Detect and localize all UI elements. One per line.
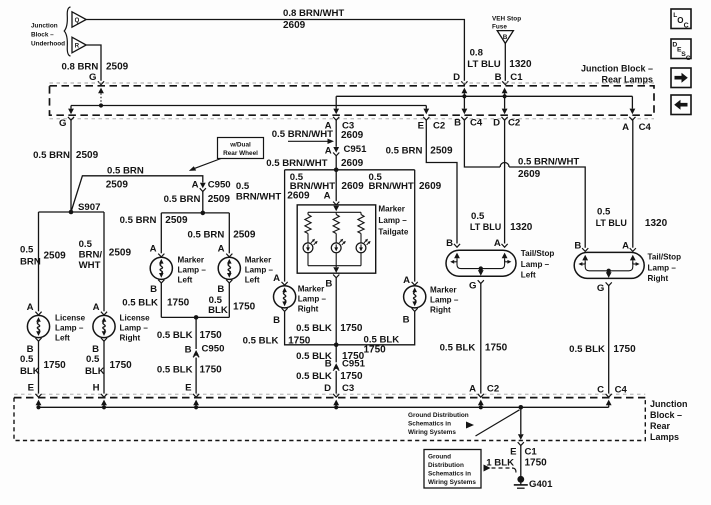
svg-text:1750: 1750 xyxy=(44,360,67,371)
svg-text:Right: Right xyxy=(648,274,669,283)
svg-text:Distribution: Distribution xyxy=(428,462,464,469)
label tail/stop lamp right xyxy=(648,253,682,284)
pin B marker right2 xyxy=(403,308,418,325)
svg-text:VEH Stop: VEH Stop xyxy=(492,15,521,22)
svg-text:0.5 BRN: 0.5 BRN xyxy=(33,150,70,161)
svg-text:C2: C2 xyxy=(433,121,445,132)
wire 0.5 BLK 1750 (C951 to D C3) xyxy=(296,371,363,394)
svg-text:Ground Distribution: Ground Distribution xyxy=(408,412,469,419)
wire 0.5 LT BLU 1320 (D C2 to tail/stop left A) xyxy=(470,120,533,243)
svg-text:Junction Block –: Junction Block – xyxy=(581,64,653,74)
svg-text:Wiring Systems: Wiring Systems xyxy=(428,479,476,486)
lamp marker right2 xyxy=(404,286,426,308)
svg-text:Block –: Block – xyxy=(650,410,682,420)
svg-text:0.5 BLK: 0.5 BLK xyxy=(157,364,193,375)
wire 0.5 BLK 1750 (tail/stop left G) xyxy=(440,284,508,394)
wire 0.5 BRN 2509 license left xyxy=(20,212,66,311)
svg-text:2609: 2609 xyxy=(341,158,364,169)
node: bus junction dots xyxy=(36,405,483,409)
svg-text:1320: 1320 xyxy=(509,59,532,70)
svg-text:G: G xyxy=(469,281,476,292)
svg-text:0.5 BRN: 0.5 BRN xyxy=(107,166,144,177)
svg-text:Marker: Marker xyxy=(430,286,457,295)
wire 0.5 BRN 2509 marker left1 xyxy=(120,213,188,253)
svg-text:A: A xyxy=(192,180,199,191)
svg-text:0.5: 0.5 xyxy=(471,211,485,222)
svg-text:0.5 BRN/WHT: 0.5 BRN/WHT xyxy=(518,157,579,168)
LED tailgate 3 xyxy=(356,239,371,266)
node: junction dot G bus xyxy=(99,103,103,107)
wire: bus2 inside top block xyxy=(336,95,632,97)
svg-text:Lamp –: Lamp – xyxy=(378,216,407,225)
wire 0.5 BLK 1750 license right xyxy=(85,341,132,393)
svg-text:Lamp –: Lamp – xyxy=(521,260,550,269)
svg-text:B: B xyxy=(503,34,508,41)
svg-text:0.5 BRN: 0.5 BRN xyxy=(120,215,157,226)
svg-text:C: C xyxy=(684,23,689,30)
svg-text:A: A xyxy=(325,146,332,157)
svg-text:Lamps: Lamps xyxy=(650,432,679,442)
wire 0.5 BRN/WHT 2609 (B C4 to tail/stop right B) xyxy=(464,120,585,248)
pin B tail/stop right xyxy=(574,241,588,252)
node B C4 label xyxy=(454,118,483,129)
svg-text:Tail/Stop: Tail/Stop xyxy=(521,249,555,258)
svg-text:Junction: Junction xyxy=(31,23,58,30)
ground G401 xyxy=(514,476,553,490)
svg-text:Left: Left xyxy=(178,276,193,285)
svg-text:Wiring Systems: Wiring Systems xyxy=(408,429,456,436)
connector A C950 xyxy=(192,180,231,192)
svg-text:B: B xyxy=(403,315,410,326)
svg-text:A: A xyxy=(622,122,629,133)
pin A tail/stop right xyxy=(622,241,636,252)
svg-text:C951: C951 xyxy=(344,144,368,155)
button left arrow xyxy=(671,95,691,115)
node: junction dot B C1 bus2 xyxy=(503,94,507,98)
label marker lamp right1 xyxy=(298,285,327,314)
svg-text:B: B xyxy=(185,345,192,356)
wire 0.5 BRN 2509 marker left2 xyxy=(188,213,256,253)
svg-text:License: License xyxy=(55,314,86,323)
svg-text:Lamp –: Lamp – xyxy=(648,264,677,273)
svg-text:A: A xyxy=(324,191,331,202)
label marker lamp left1 xyxy=(178,256,207,285)
entry arrow D / exit B C4 xyxy=(462,88,468,115)
svg-text:w/Dual: w/Dual xyxy=(229,142,251,149)
LED tailgate 2 xyxy=(331,239,346,266)
svg-text:H: H xyxy=(93,383,100,394)
wire 0.5 BRN/WHT 2609 (C3 to C951) xyxy=(272,120,336,147)
svg-text:0.5 BLK: 0.5 BLK xyxy=(243,335,279,346)
wire 0.5 BLK 1750 (dot to C951) xyxy=(296,345,365,363)
svg-text:0.5 BLK: 0.5 BLK xyxy=(440,342,476,353)
svg-text:2509: 2509 xyxy=(208,194,231,205)
svg-text:2609: 2609 xyxy=(419,181,442,192)
svg-text:G401: G401 xyxy=(529,479,553,490)
svg-text:E: E xyxy=(185,383,192,394)
svg-text:BLK: BLK xyxy=(20,366,40,377)
svg-text:G: G xyxy=(597,283,604,294)
svg-text:Lamp –: Lamp – xyxy=(430,296,459,305)
svg-text:B: B xyxy=(574,241,581,252)
pin A license left xyxy=(27,302,42,315)
entry arrow B C1 / exit D C2 xyxy=(502,88,508,115)
marker lamp tailgate box xyxy=(297,205,376,273)
svg-text:1750: 1750 xyxy=(167,298,190,309)
svg-text:C4: C4 xyxy=(639,122,652,133)
svg-text:D: D xyxy=(453,72,460,83)
svg-text:Marker: Marker xyxy=(298,285,325,294)
exit arrow A C4 xyxy=(630,96,636,114)
svg-text:1320: 1320 xyxy=(645,218,668,229)
svg-text:Schematics in: Schematics in xyxy=(408,421,451,428)
svg-text:E: E xyxy=(510,447,517,458)
svg-text:2609: 2609 xyxy=(518,169,541,180)
svg-text:LT BLU: LT BLU xyxy=(467,59,500,70)
svg-text:0.8: 0.8 xyxy=(470,48,484,59)
svg-text:0.5 BRN: 0.5 BRN xyxy=(164,194,201,205)
lamp marker right1 xyxy=(274,286,296,308)
svg-text:BLK: BLK xyxy=(208,305,228,316)
svg-text:2509: 2509 xyxy=(233,230,256,241)
svg-text:B: B xyxy=(273,315,280,326)
lamp marker left1 xyxy=(150,257,172,279)
label license lamp right xyxy=(120,314,151,343)
button LOC xyxy=(671,9,691,30)
svg-text:Left: Left xyxy=(55,334,70,343)
pin A tailgate xyxy=(324,191,340,205)
svg-text:0.5: 0.5 xyxy=(236,181,250,192)
svg-text:0.5: 0.5 xyxy=(86,354,100,365)
junction block rear lamps (bottom) border xyxy=(14,394,645,440)
svg-text:Lamp –: Lamp – xyxy=(55,324,84,333)
svg-text:A: A xyxy=(622,241,629,252)
svg-text:Marker: Marker xyxy=(378,205,405,214)
svg-text:A: A xyxy=(494,238,501,249)
svg-text:Fuse: Fuse xyxy=(492,24,507,31)
pin B license right xyxy=(92,338,107,355)
svg-text:Lamp –: Lamp – xyxy=(245,266,274,275)
svg-text:B: B xyxy=(150,284,157,295)
tail/stop lamp left xyxy=(446,250,516,276)
node: ground tap dot xyxy=(519,405,524,410)
svg-text:0.5 BLK: 0.5 BLK xyxy=(569,344,605,355)
tail/stop lamp right xyxy=(574,252,644,278)
wire 0.5 BRN 2509 (C950 to split) xyxy=(164,192,231,213)
entry chevrons bottom block xyxy=(35,394,611,397)
svg-text:Lamp –: Lamp – xyxy=(120,324,149,333)
button DESC xyxy=(671,39,691,62)
svg-text:0.5: 0.5 xyxy=(79,239,93,250)
pin A marker left1 xyxy=(150,244,165,257)
node A C4 label xyxy=(622,122,651,133)
svg-text:A: A xyxy=(218,244,225,255)
svg-text:Rear: Rear xyxy=(650,421,671,431)
svg-text:1750: 1750 xyxy=(200,330,223,341)
svg-text:2609: 2609 xyxy=(283,20,306,31)
svg-text:0.5: 0.5 xyxy=(20,245,34,256)
svg-text:Underhood: Underhood xyxy=(31,41,65,48)
svg-text:1750: 1750 xyxy=(233,302,256,313)
svg-text:Right: Right xyxy=(430,306,451,315)
pin G tail/stop right xyxy=(597,282,612,293)
entry arrow G (top block) xyxy=(98,88,104,106)
svg-text:0.5 BRN: 0.5 BRN xyxy=(188,230,225,241)
node E C1 exit label xyxy=(510,447,537,458)
node A C3 label xyxy=(325,121,364,141)
splice S907 xyxy=(69,202,101,214)
svg-text:G: G xyxy=(59,118,66,129)
lamp marker left2 xyxy=(218,257,240,279)
wire 0.5 BLK 1750 (C950 to E) xyxy=(157,358,222,394)
wire 0.5 BLK 1750 (join to C950) xyxy=(157,317,222,349)
pin A marker left2 xyxy=(218,244,233,257)
node B C1 entry label xyxy=(495,72,524,83)
wire 0.5 BLK 1750 marker left2 xyxy=(208,283,256,317)
pin B marker right1 xyxy=(273,308,288,326)
wire 0.8 LT BLU 1320 xyxy=(467,43,532,84)
wire 0.5 BRN 2509 (E C2 to tail/stop left B) xyxy=(386,120,457,243)
svg-text:B: B xyxy=(325,279,332,290)
entry arrows inside bottom block xyxy=(36,400,612,408)
svg-text:License: License xyxy=(120,314,151,323)
svg-text:Left: Left xyxy=(521,271,536,280)
svg-text:A: A xyxy=(273,273,280,284)
pin B license left xyxy=(27,338,42,355)
svg-text:B: B xyxy=(454,118,461,129)
svg-text:2509: 2509 xyxy=(430,146,453,157)
wire 0.8 BRN 2509 xyxy=(62,45,129,85)
svg-text:1320: 1320 xyxy=(510,222,533,233)
LED tailgate 1 xyxy=(303,239,318,266)
svg-text:A: A xyxy=(27,302,34,313)
junction block rear lamps (top) border xyxy=(50,83,655,119)
wire 0.5 BRN/WHT 2609 marker right2 feed xyxy=(369,170,442,282)
pin A marker right1 xyxy=(273,273,288,285)
fuse VEH Stop xyxy=(492,15,521,43)
note box ground distribution xyxy=(424,450,481,489)
svg-text:C951: C951 xyxy=(342,358,366,369)
svg-text:Marker: Marker xyxy=(178,256,205,265)
node: marker split dot xyxy=(201,211,206,216)
svg-text:A: A xyxy=(150,244,157,255)
wire: ground bus bottom block xyxy=(39,406,609,408)
node: C951 junction dot xyxy=(334,168,339,173)
svg-text:WHT: WHT xyxy=(79,260,101,271)
svg-text:0.5 BRN/WHT: 0.5 BRN/WHT xyxy=(272,129,333,140)
wire 0.5 BRN 2509 (S907 to C950) xyxy=(71,166,203,213)
svg-text:2609: 2609 xyxy=(341,181,364,192)
wire 0.5 BLK 1750 (tail/stop right G) xyxy=(569,286,636,394)
svg-text:LT BLU: LT BLU xyxy=(596,218,627,228)
connector A C951 xyxy=(325,144,367,156)
svg-text:0.8 BRN: 0.8 BRN xyxy=(62,62,99,73)
wire: branch bar left/right xyxy=(285,169,415,171)
button right arrow xyxy=(671,68,691,88)
svg-text:0.5: 0.5 xyxy=(20,354,34,365)
wire 0.5 BLK 1750 license left xyxy=(20,341,66,393)
node: tailgate ground dot xyxy=(334,343,339,348)
exit arrow E C2 xyxy=(423,106,429,115)
svg-text:0.5: 0.5 xyxy=(597,207,611,218)
svg-text:C: C xyxy=(686,55,691,62)
svg-text:Q: Q xyxy=(75,18,80,24)
junction block rear lamps title (top) xyxy=(581,64,653,85)
resistor tailgate 1 xyxy=(305,212,311,243)
svg-text:BRN/: BRN/ xyxy=(79,250,103,261)
svg-text:2509: 2509 xyxy=(106,180,129,191)
svg-text:E: E xyxy=(28,383,35,394)
svg-text:A: A xyxy=(93,302,100,313)
node E C2 label xyxy=(418,121,446,132)
svg-text:2509: 2509 xyxy=(109,248,132,259)
pin A tail/stop left xyxy=(494,238,508,249)
svg-text:B: B xyxy=(446,238,453,249)
node: junction dot D bus2 xyxy=(462,94,466,98)
label license lamp left xyxy=(55,314,86,343)
pin B tailgate xyxy=(325,275,339,290)
svg-text:Schematics in: Schematics in xyxy=(428,471,471,478)
svg-text:Ground: Ground xyxy=(428,454,451,461)
svg-text:BRN/WHT: BRN/WHT xyxy=(369,181,414,192)
wire 0.5 BLK 1750 (tailgate B down) xyxy=(296,278,363,345)
svg-text:D: D xyxy=(493,118,500,129)
svg-text:0.5 BLK: 0.5 BLK xyxy=(122,298,158,309)
svg-text:D: D xyxy=(324,383,331,394)
svg-text:1750: 1750 xyxy=(485,342,508,353)
svg-text:BRN/WHT: BRN/WHT xyxy=(236,192,281,203)
svg-text:C950: C950 xyxy=(208,180,231,191)
note arrow w/Dual xyxy=(189,159,221,171)
wire 0.5 LT BLU 1320 (A C4 to tail/stop right A) xyxy=(596,120,668,248)
junction block rear lamps title (bottom) xyxy=(650,399,688,442)
terminal R xyxy=(72,37,86,53)
wire 0.5 BRN/WHT 2609 marker right1 feed xyxy=(236,170,310,282)
pin B marker left1 xyxy=(150,280,164,295)
svg-text:0.5 BLK: 0.5 BLK xyxy=(296,323,332,334)
svg-text:Marker: Marker xyxy=(245,256,272,265)
svg-text:C950: C950 xyxy=(202,344,225,355)
svg-text:B: B xyxy=(495,72,502,83)
exit arrow A C3 xyxy=(333,96,339,114)
connector B C951 xyxy=(325,358,366,370)
svg-text:C4: C4 xyxy=(470,118,483,129)
svg-text:1750: 1750 xyxy=(340,371,363,382)
lamp license left xyxy=(27,315,49,337)
wire: bus1 inside top block xyxy=(71,105,426,107)
svg-text:E: E xyxy=(418,121,425,132)
brace xyxy=(64,7,70,56)
svg-text:B: B xyxy=(325,358,332,369)
svg-text:Left: Left xyxy=(245,276,260,285)
pin B marker left2 xyxy=(217,280,232,295)
svg-text:1750: 1750 xyxy=(364,345,387,356)
svg-text:2509: 2509 xyxy=(106,62,129,73)
wire 0.5 BRN/WHT 2609 center feed xyxy=(290,170,364,201)
pin G tail/stop left xyxy=(469,280,484,291)
svg-text:C1: C1 xyxy=(510,72,523,83)
exit arrow E C1 xyxy=(518,407,524,445)
label tail/stop lamp left xyxy=(521,249,555,280)
pin A license right xyxy=(93,302,108,315)
svg-text:Tailgate: Tailgate xyxy=(378,228,408,237)
svg-text:C1: C1 xyxy=(525,447,538,458)
svg-text:C3: C3 xyxy=(342,383,354,394)
note ground distribution (inside block) xyxy=(408,412,474,436)
node C C4 entry label xyxy=(597,384,627,395)
wire 0.5 BLK 1750 marker right2 ground xyxy=(336,311,415,355)
svg-text:A: A xyxy=(403,275,410,286)
connector B C950 xyxy=(185,344,225,358)
junction block underhood label xyxy=(31,23,65,48)
tailgate internals xyxy=(308,206,361,273)
svg-text:0.5 BRN/WHT: 0.5 BRN/WHT xyxy=(266,158,327,169)
wire: S907 split bar xyxy=(39,211,105,213)
svg-text:R: R xyxy=(75,43,80,49)
svg-text:1750: 1750 xyxy=(110,360,133,371)
wire: marker B join bar xyxy=(161,316,229,318)
svg-text:2509: 2509 xyxy=(165,215,188,226)
svg-text:2609: 2609 xyxy=(287,191,310,202)
pin B tail/stop left xyxy=(446,238,460,249)
svg-text:A: A xyxy=(469,384,476,395)
label marker lamp tailgate xyxy=(378,205,408,237)
node: marker B join dot xyxy=(194,315,199,320)
svg-text:BRN: BRN xyxy=(20,257,41,268)
svg-text:0.5 BLK: 0.5 BLK xyxy=(296,371,332,382)
exit arrow G (top block) xyxy=(68,106,74,115)
svg-text:1750: 1750 xyxy=(200,364,223,375)
resistor tailgate 3 xyxy=(358,212,364,243)
svg-text:Right: Right xyxy=(298,305,319,314)
svg-text:BLK: BLK xyxy=(85,366,105,377)
svg-text:Lamp –: Lamp – xyxy=(298,295,327,304)
svg-text:0.5 BRN: 0.5 BRN xyxy=(386,146,423,157)
svg-text:G: G xyxy=(89,72,96,83)
svg-text:Lamp –: Lamp – xyxy=(178,266,207,275)
wire 1 BLK 1750 (to G401) xyxy=(486,446,547,478)
svg-text:C2: C2 xyxy=(487,384,499,395)
svg-text:C2: C2 xyxy=(508,118,520,129)
wire 0.5 BLK 1750 marker left1 xyxy=(122,283,189,317)
wire 0.8 BRN/WHT 2609 xyxy=(86,8,467,85)
svg-text:2509: 2509 xyxy=(76,150,99,161)
label marker lamp left2 xyxy=(245,256,274,285)
svg-text:Rear Wheel: Rear Wheel xyxy=(223,150,258,157)
svg-text:Tail/Stop: Tail/Stop xyxy=(648,253,682,262)
svg-text:LT BLU: LT BLU xyxy=(470,222,501,232)
svg-text:0.8 BRN/WHT: 0.8 BRN/WHT xyxy=(283,8,344,19)
node D C3 entry label xyxy=(324,383,354,394)
svg-text:1750: 1750 xyxy=(613,344,636,355)
wire 0.5 BRN/WHT 2609 (C951 to dot) xyxy=(266,156,363,170)
svg-text:1750: 1750 xyxy=(525,458,548,469)
svg-text:0.5 BLK: 0.5 BLK xyxy=(157,330,193,341)
wire 0.5 BRN 2509 (G to S907) xyxy=(33,120,98,212)
svg-text:Block –: Block – xyxy=(31,32,54,39)
svg-text:2509: 2509 xyxy=(44,251,67,262)
svg-text:Junction: Junction xyxy=(650,399,688,409)
svg-text:1 BLK: 1 BLK xyxy=(486,458,514,469)
svg-text:1750: 1750 xyxy=(340,323,363,334)
wire 0.5 BRN/WHT 2509 license right xyxy=(79,212,132,311)
pin A marker right2 xyxy=(403,275,418,286)
wire: pointer diagonal to ground tap xyxy=(476,410,520,436)
node A C2 entry label xyxy=(469,384,499,395)
exit chevrons below top block xyxy=(68,117,636,120)
resistor tailgate 2 xyxy=(333,212,339,243)
svg-text:Right: Right xyxy=(120,334,141,343)
